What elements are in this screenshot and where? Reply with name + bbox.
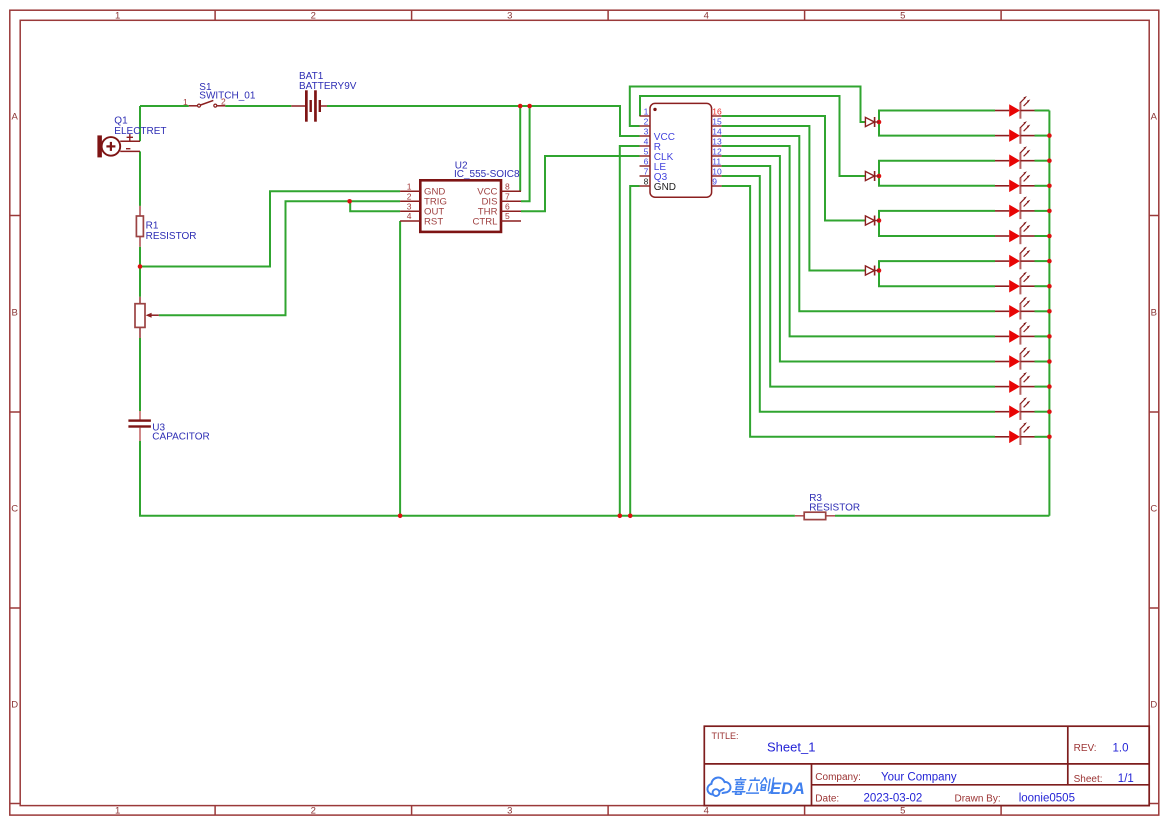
wire 555 VCC pin8 to top rail [519,106,521,191]
svg-text:C: C [1150,503,1157,514]
svg-text:D: D [11,699,18,710]
svg-text:loonie0505: loonie0505 [1019,792,1075,804]
svg-text:D: D [1150,699,1157,710]
LED D14 [995,322,1035,345]
wire LED13 cathode to bus [1035,411,1050,413]
junction node 21 [1047,359,1052,364]
wire diode D1 output split [879,111,995,136]
wire U1 pin10 to LED row 13 [722,176,995,412]
svg-text:IC_555-SOIC8: IC_555-SOIC8 [454,169,520,180]
wire LED12 cathode to bus [1035,386,1050,388]
junction node 15 [1047,209,1052,214]
svg-text:11: 11 [712,156,721,166]
svg-text:Your Company: Your Company [881,771,957,783]
svg-text:4: 4 [704,10,709,21]
svg-text:RESISTOR: RESISTOR [809,503,860,514]
svg-text:7: 7 [505,191,510,201]
title block [704,726,1149,805]
svg-text:5: 5 [900,805,905,816]
wire U1 pin14 to LED row 9 [722,136,995,311]
svg-text:3: 3 [507,805,512,816]
svg-text:1: 1 [644,106,649,116]
svg-text:A: A [1151,111,1158,122]
svg-text:9: 9 [712,176,717,186]
LED D9 [995,196,1035,219]
junction node 1 [518,104,523,109]
wire LED3 cathode to bus [1035,160,1050,162]
U1 pin numbers left 1-8 [644,106,722,186]
junction node 13 [1047,158,1052,163]
wire U1 pin12 to LED row 11 [722,156,995,362]
svg-text:8: 8 [644,176,649,186]
wire R1 to node A [139,247,141,297]
svg-text:TITLE:: TITLE: [712,731,739,741]
wire bottom rail: R3 to LED bus [835,515,1049,517]
wire top rail: mic to switch [140,105,189,107]
junction node 4 [347,199,352,204]
svg-text:RESISTOR: RESISTOR [146,231,197,242]
wire node A to 555 GND pin1 [140,191,400,266]
battery BAT1 [305,90,321,121]
electret microphone Q1 [97,134,140,157]
diode D2 [865,171,879,181]
capacitor U3 [128,411,151,441]
wire U1 pin15 to diode D4 [722,126,866,271]
svg-text:12: 12 [712,146,722,156]
junction node 9 [877,174,882,179]
wire capacitor to bottom rail, rail to R3 [140,441,795,516]
svg-text:8: 8 [505,181,510,191]
svg-text:2023-03-02: 2023-03-02 [864,792,923,804]
wire U1 pin2 to diode D1 [630,87,866,127]
svg-text:1.0: 1.0 [1113,743,1129,755]
svg-text:1/1: 1/1 [1118,773,1134,785]
svg-text:Drawn By:: Drawn By: [955,794,1001,805]
svg-text:B: B [12,307,18,318]
wire LED14 cathode to bus [1035,436,1050,438]
wire diode D2 output split [879,161,995,186]
wire U1 pin9 to LED row 14 [722,186,995,437]
resistor R3 [795,512,835,519]
wire U1 R pin4 to bottom rail [620,146,640,516]
wire 555 OUT pin3 to TRIG net [350,201,400,211]
svg-text:BATTERY9V: BATTERY9V [299,81,357,92]
wire diode D4 output split [879,261,995,286]
svg-text:4: 4 [704,805,709,816]
LED D8 [995,171,1035,194]
wire 555 THR pin6 to U1 CLK pin5 [521,156,640,211]
svg-text:7: 7 [644,166,649,176]
svg-text:16: 16 [712,106,722,116]
resistor R1 [136,206,143,247]
LED D7 [995,146,1035,169]
svg-text:2: 2 [311,10,316,21]
LED D12 [995,272,1035,295]
svg-text:10: 10 [712,166,722,176]
svg-text:B: B [1151,307,1157,318]
wire LED1 cathode to bus [1035,110,1050,112]
svg-text:5: 5 [644,146,649,156]
junction node 10 [877,218,882,223]
svg-text:15: 15 [712,116,722,126]
svg-text:REV:: REV: [1074,743,1097,754]
svg-text:5: 5 [505,211,510,221]
svg-text:Company:: Company: [815,772,861,783]
wire pot to capacitor [139,338,141,411]
wire diode D3 output split [879,211,995,236]
junction node 14 [1047,184,1052,189]
wire mic minus to R1 [139,151,141,206]
wire pot wiper to 555 TRIG pin2 [159,201,400,315]
wire LED cathode bus [1048,111,1050,516]
junction node 5 [398,514,403,519]
junction node 23 [1047,409,1052,414]
svg-text:3: 3 [407,201,412,211]
junction node 2 [527,104,532,109]
svg-text:3: 3 [644,126,649,136]
svg-text:1: 1 [183,97,188,107]
svg-text:1: 1 [115,10,120,21]
svg-text:Sheet_1: Sheet_1 [767,740,815,755]
diode D3 [865,216,879,226]
wire top rail: switch to battery [225,105,291,107]
wire LED10 cathode to bus [1035,335,1050,337]
svg-text:1: 1 [115,805,120,816]
svg-text:RST: RST [424,216,443,227]
wire 555 DIS pin7 to top rail [521,106,530,201]
wire LED4 cathode to bus [1035,185,1050,187]
svg-text:CAPACITOR: CAPACITOR [152,432,209,443]
EasyEDA logo text [731,777,773,794]
LED D5 [995,96,1035,119]
potentiometer R2 [135,297,159,338]
svg-text:A: A [12,111,19,122]
diode D4 [865,266,879,276]
junction node 8 [877,120,882,125]
svg-text:4: 4 [407,211,412,221]
diode D1 [865,117,879,127]
junction node 7 [628,514,633,519]
svg-text:GND: GND [654,182,676,193]
LED D15 [995,347,1035,370]
svg-text:EDA: EDA [770,780,805,798]
junction node 18 [1047,284,1052,289]
op-amp/timer U2 IC_555-SOIC8 [400,180,521,232]
title block texts [712,731,1134,805]
svg-text:Date:: Date: [815,794,839,805]
junction node 16 [1047,234,1052,239]
junction node 17 [1047,259,1052,264]
LED D18 [995,422,1035,445]
junction node 24 [1047,435,1052,440]
wire 555 RST pin4 to bottom rail [399,221,401,516]
junction node 6 [618,514,623,519]
U2 pin names [424,187,498,228]
counter IC U1 (16-pin) [640,103,722,197]
wire U1 pin16 to diode D3 [722,116,866,221]
svg-text:SWITCH_01: SWITCH_01 [199,91,256,102]
svg-text:2: 2 [407,191,412,201]
svg-text:CTRL: CTRL [472,216,498,227]
svg-text:14: 14 [712,126,722,136]
svg-text:2: 2 [311,805,316,816]
junction node 11 [877,268,882,273]
LED D16 [995,372,1035,395]
junction node 3 [138,264,143,269]
LED D13 [995,297,1035,320]
svg-text:6: 6 [644,156,649,166]
U1 pin names [654,132,676,193]
LED D6 [995,121,1035,144]
switch S1 [189,100,225,107]
svg-text:13: 13 [712,136,722,146]
LED D11 [995,247,1035,270]
junction node 19 [1047,309,1052,314]
wire U1 GND pin8 to bottom rail [630,186,639,516]
wire LED11 cathode to bus [1035,361,1050,363]
svg-text:4: 4 [644,136,649,146]
wire top rail: battery to U1 pin3 VCC [327,106,640,136]
LED D10 [995,222,1035,245]
svg-text:C: C [11,503,18,514]
wire U1 pin1 to diode D2 [640,96,865,176]
wire LED7 cathode to bus [1035,260,1050,262]
junction node 22 [1047,384,1052,389]
wire LED2 cathode to bus [1035,135,1050,137]
wire LED6 cathode to bus [1035,235,1050,237]
svg-text:2: 2 [644,116,649,126]
wire LED8 cathode to bus [1035,285,1050,287]
wire U1 pin13 to LED row 10 [722,146,995,336]
LED D17 [995,397,1035,420]
junction node 20 [1047,334,1052,339]
svg-text:1: 1 [407,181,412,191]
wire mic plus to top rail [139,106,141,141]
svg-text:Sheet:: Sheet: [1074,774,1103,785]
wire LED5 cathode to bus [1035,210,1050,212]
svg-text:5: 5 [900,10,905,21]
U2 pin numbers [407,181,510,221]
EasyEDA logo cloud [707,778,730,796]
svg-text:6: 6 [505,201,510,211]
svg-text:ELECTRET: ELECTRET [114,126,166,137]
wire LED9 cathode to bus [1035,310,1050,312]
svg-text:3: 3 [507,10,512,21]
junction node 12 [1047,133,1052,138]
wire U1 pin11 to LED row 12 [722,166,995,387]
